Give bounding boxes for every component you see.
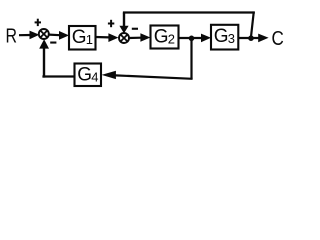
svg-text:G: G bbox=[72, 27, 87, 48]
svg-text:G: G bbox=[77, 65, 92, 86]
svg-text:G: G bbox=[154, 27, 169, 48]
svg-text:C: C bbox=[272, 27, 284, 50]
svg-text:R: R bbox=[6, 25, 18, 47]
svg-text:2: 2 bbox=[168, 32, 175, 47]
svg-text:3: 3 bbox=[228, 31, 235, 46]
svg-text:4: 4 bbox=[91, 70, 98, 85]
svg-text:1: 1 bbox=[86, 32, 93, 47]
svg-text:G: G bbox=[214, 26, 229, 47]
